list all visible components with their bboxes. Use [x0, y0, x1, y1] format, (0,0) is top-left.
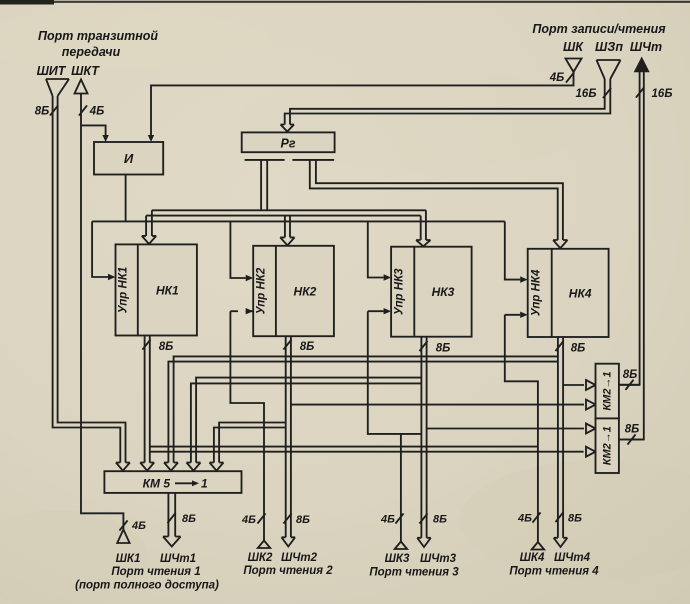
block НК3	[391, 247, 472, 337]
svg-text:ШК2: ШК2	[248, 552, 273, 564]
wire rail to НК2 Упр	[230, 221, 245, 278]
svg-text:ШЧт3: ШЧт3	[420, 553, 457, 565]
slash 4Б on ШК	[566, 72, 574, 82]
wire НК4 branch to КМ2 top input1	[563, 384, 584, 386]
svg-text:(порт полного доступа): (порт полного доступа)	[75, 580, 219, 592]
arrowhead ШЧт3	[417, 538, 431, 547]
wire И output to rail	[125, 175, 127, 222]
bus ШЧт left line from KM2 top	[619, 72, 640, 385]
svg-text:ШКТ: ШКТ	[71, 64, 100, 78]
bus КМ5 output ШЧт1 8Б	[168, 493, 175, 537]
svg-text:КМ2→1: КМ2→1	[602, 371, 614, 410]
bus НК1 branch to КМ2 bottom	[150, 446, 538, 448]
slash 4Б ШК4	[532, 512, 540, 522]
svg-text:НК4: НК4	[569, 286, 592, 300]
block И	[94, 142, 163, 175]
svg-text:НК3: НК3	[432, 285, 455, 299]
svg-text:ШК4: ШК4	[520, 552, 545, 564]
svg-text:ШЧт1: ШЧт1	[160, 553, 196, 565]
svg-text:8Б: 8Б	[433, 514, 447, 526]
wire ШК to И	[151, 72, 574, 136]
bus branch into НК2 top	[285, 216, 290, 238]
svg-text:8Б: 8Б	[625, 424, 640, 436]
slash 8Б НК2	[283, 339, 291, 349]
scan edge artifact top	[0, 0, 54, 5]
svg-text:ШЧт2: ШЧт2	[281, 552, 318, 564]
svg-text:ШЧт: ШЧт	[630, 40, 662, 54]
bus НК2 output 8Б	[286, 336, 291, 537]
svg-text:ШИТ: ШИТ	[37, 64, 67, 78]
svg-text:ШЗп: ШЗп	[595, 40, 623, 54]
bus Рг distribution bottom line	[146, 216, 421, 240]
svg-text:НК1: НК1	[156, 283, 179, 297]
wire ШКТ branch to И	[81, 125, 106, 136]
arrowhead into НК4 top	[553, 240, 567, 248]
arrowheads into КМ 5→1	[116, 463, 130, 471]
svg-text:8Б: 8Б	[623, 369, 638, 381]
svg-text:Порт чтения 2: Порт чтения 2	[243, 565, 333, 577]
arrowhead into НК2 top	[280, 237, 294, 245]
slash 8Б НК4	[555, 341, 563, 351]
bus НК4 branch to КМ5 input3	[168, 356, 558, 462]
svg-text:8Б: 8Б	[159, 341, 174, 353]
slash 4Б on ШКТ	[79, 105, 87, 115]
slash 8Б НК3	[419, 341, 427, 351]
svg-text:Порт чтения 4: Порт чтения 4	[509, 566, 599, 578]
bus ШЗп 16Б to Рг (double line)	[290, 79, 605, 125]
slash 8Б on ШИТ	[50, 105, 58, 115]
arrowhead ШЧт1	[163, 537, 181, 547]
svg-text:1: 1	[201, 477, 208, 491]
bus НК3 branch to КМ5 input4	[191, 378, 422, 463]
slash 16Б on ШЧт	[636, 87, 644, 97]
arrowhead into НК1 top	[142, 236, 156, 244]
port arrow ШЧт out (16Б)	[634, 57, 650, 73]
bus Рг left output	[261, 160, 267, 210]
svg-text:Порт транзитной: Порт транзитной	[38, 29, 158, 43]
port triangle ШК2	[258, 541, 270, 549]
svg-text:передачи: передачи	[62, 45, 121, 59]
svg-text:16Б: 16Б	[576, 88, 597, 100]
bus НК2 branch to КМ5 input5	[214, 423, 286, 463]
arrowhead into Рг	[281, 125, 295, 132]
port triangle ШК3	[395, 542, 407, 550]
svg-text:КМ2→1: КМ2→1	[602, 426, 614, 465]
svg-text:Рг: Рг	[280, 137, 295, 151]
svg-text:ШК3: ШК3	[385, 553, 410, 565]
slash 8Б ШЧт1	[167, 513, 175, 523]
wire rail to НК4 Упр	[505, 221, 520, 279]
svg-text:ШК: ШК	[563, 40, 584, 54]
svg-text:16Б: 16Б	[652, 88, 673, 100]
svg-text:ШЧт4: ШЧт4	[554, 552, 591, 564]
wire НК2 branch to КМ2 top input2	[291, 404, 584, 406]
wire НК3 branch to КМ2 bottom input1	[427, 428, 584, 430]
slash 8Б КМ2 lower	[627, 434, 635, 444]
svg-text:И: И	[124, 151, 134, 166]
bus НК3 output 8Б	[421, 337, 426, 538]
svg-text:8Б: 8Б	[35, 106, 50, 118]
line under Рг	[245, 159, 335, 161]
wire ШКТ vertical	[81, 94, 123, 530]
wire rail to НК1 Упр	[92, 221, 108, 277]
slash 8Б ШЧт2	[283, 513, 291, 523]
port arrow ШКТ	[75, 80, 88, 94]
bus НК1 output 8Б	[145, 336, 150, 463]
svg-text:Порт чтения 1: Порт чтения 1	[111, 566, 200, 578]
svg-text:ШК1: ШК1	[116, 553, 141, 565]
port funnel ШК	[566, 59, 582, 73]
wire ШК4 up to НК4 Упр	[505, 315, 538, 542]
svg-text:8Б: 8Б	[296, 514, 310, 526]
wire ШК3 up to НК3 Упр	[229, 310, 231, 312]
slash 4Б ШК1	[119, 520, 127, 530]
slash 8Б КМ2 upper	[625, 380, 633, 390]
svg-text:Упр НК4: Упр НК4	[531, 269, 543, 316]
slash 8Б НК1	[142, 339, 150, 349]
svg-text:8Б: 8Б	[571, 343, 586, 355]
arrowhead into НК3 top	[416, 240, 430, 246]
svg-text:8Б: 8Б	[568, 513, 582, 525]
slash 4Б ШК2	[257, 513, 265, 523]
bus Рг right output to НК4	[316, 160, 563, 240]
svg-text:4Б: 4Б	[241, 514, 256, 526]
slash 8Б ШЧт4	[555, 512, 563, 522]
bus Рг distribution (НК1..НК3) top line	[152, 210, 426, 240]
port funnel ШЗп	[597, 60, 621, 79]
bus ШЧт right line from KM2 bottom	[619, 72, 644, 440]
wire ШК2 up to НК2 Упр	[230, 311, 264, 540]
arrowhead ШЧт2	[282, 537, 296, 546]
block КМ 5→1	[104, 471, 241, 493]
svg-text:Упр НК2: Упр НК2	[256, 267, 268, 314]
svg-text:Порт чтения 3: Порт чтения 3	[369, 567, 459, 579]
port triangle ШК4	[532, 542, 544, 550]
port triangle ШК1	[117, 530, 129, 544]
svg-text:4Б: 4Б	[549, 72, 565, 84]
block НК4	[528, 249, 609, 337]
wire КМ2 lower output	[619, 439, 644, 441]
slash 16Б on ШЗп	[603, 88, 611, 98]
slash 8Б ШЧт3	[419, 513, 427, 523]
svg-text:4Б: 4Б	[517, 513, 532, 525]
block НК1	[116, 244, 197, 335]
block КМ2→1 upper	[596, 364, 619, 419]
block КМ2→1 lower	[596, 418, 619, 473]
svg-text:КМ 5: КМ 5	[143, 477, 171, 491]
svg-text:4Б: 4Б	[89, 106, 105, 118]
port funnel ШИТ	[46, 79, 69, 96]
bus ШИТ 8Б (double line to KM5 input 1)	[53, 96, 121, 463]
block Рг	[242, 132, 335, 152]
block НК2	[253, 246, 334, 336]
svg-text:НК2: НК2	[294, 285, 317, 299]
wire КМ2 upper output	[619, 384, 640, 386]
svg-text:4Б: 4Б	[380, 514, 395, 526]
svg-text:8Б: 8Б	[300, 341, 315, 353]
svg-text:4Б: 4Б	[131, 520, 146, 532]
wire rail to НК3 Упр	[368, 221, 384, 277]
svg-text:Порт записи/чтения: Порт записи/чтения	[532, 22, 666, 36]
arrowhead ШЧт4	[554, 538, 568, 547]
svg-text:8Б: 8Б	[436, 343, 451, 355]
slash 4Б ШК3	[395, 513, 403, 523]
rail select from И	[92, 220, 505, 222]
svg-text:Упр НК3: Упр НК3	[394, 268, 406, 315]
svg-text:8Б: 8Б	[182, 513, 196, 525]
bus НК4 output 8Б	[558, 337, 563, 538]
svg-text:Упр НК1: Упр НК1	[118, 267, 130, 314]
